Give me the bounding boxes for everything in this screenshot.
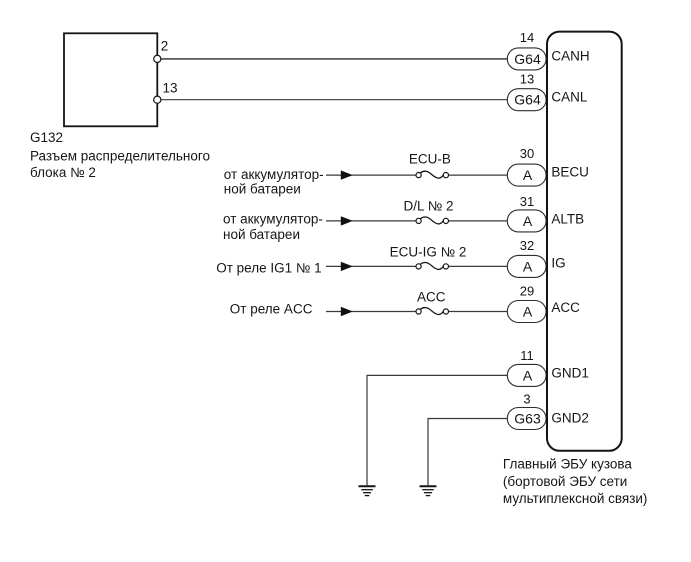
terminal A pin 32 <box>507 255 546 277</box>
fuse D/L № 2 <box>404 199 454 224</box>
svg-text:блока № 2: блока № 2 <box>30 165 96 180</box>
svg-text:ECU-B: ECU-B <box>409 152 451 167</box>
svg-text:13: 13 <box>520 72 534 87</box>
svg-text:G132: G132 <box>30 130 63 145</box>
wire CANH (pin 2 to G64 pin 14) <box>157 58 508 60</box>
terminal A pin 31 <box>507 210 546 232</box>
terminal G64 pin 14 <box>507 48 546 70</box>
svg-text:(бортовой ЭБУ сети: (бортовой ЭБУ сети <box>503 474 627 489</box>
svg-text:GND2: GND2 <box>551 410 589 425</box>
pin 13 terminal circle <box>154 96 161 103</box>
svg-text:ALTB: ALTB <box>551 212 584 227</box>
svg-text:ECU-IG № 2: ECU-IG № 2 <box>390 245 467 260</box>
wire CANL (pin 13 to G64 pin 13) <box>157 99 508 101</box>
terminal G64 pin 13 <box>507 89 546 111</box>
svg-text:CANL: CANL <box>551 90 588 105</box>
connector block G132 <box>64 33 157 126</box>
svg-text:32: 32 <box>520 238 534 253</box>
svg-text:от аккумулятор-: от аккумулятор- <box>223 211 323 226</box>
svg-text:ной батареи: ной батареи <box>223 227 300 242</box>
fuse ECU-IG № 2 <box>390 245 467 270</box>
arrow row BECU <box>341 170 353 179</box>
svg-text:IG: IG <box>551 255 565 270</box>
svg-text:A: A <box>523 213 533 229</box>
pin 2 terminal circle <box>154 55 161 62</box>
terminal A pin 29 <box>507 301 546 323</box>
svg-text:29: 29 <box>520 283 534 298</box>
svg-text:ACC: ACC <box>417 289 446 304</box>
svg-text:G64: G64 <box>514 51 541 67</box>
svg-text:Главный ЭБУ кузова: Главный ЭБУ кузова <box>503 457 633 472</box>
svg-text:A: A <box>523 258 533 274</box>
arrow row IG <box>341 262 353 271</box>
svg-text:14: 14 <box>520 30 534 45</box>
svg-text:BECU: BECU <box>551 165 589 180</box>
wire GND1 to ground <box>367 375 508 485</box>
svg-text:A: A <box>523 367 533 383</box>
svg-text:От реле IG1 № 1: От реле IG1 № 1 <box>216 261 321 276</box>
svg-text:D/L № 2: D/L № 2 <box>404 199 454 214</box>
wire row ACC <box>326 311 508 313</box>
svg-text:13: 13 <box>163 80 178 95</box>
svg-text:30: 30 <box>520 146 534 161</box>
ground symbol (GND2) <box>420 486 437 495</box>
svg-text:От реле ACC: От реле ACC <box>230 301 313 316</box>
ground symbol (GND1) <box>359 486 376 495</box>
svg-text:A: A <box>523 167 533 183</box>
fuse ACC <box>416 289 449 314</box>
caption: Главный ЭБУ кузова <box>503 457 648 506</box>
svg-text:ной батареи: ной батареи <box>224 182 301 197</box>
ECU block (Главный ЭБУ кузова) <box>547 32 622 451</box>
wire row ALTB <box>326 220 508 222</box>
svg-text:G63: G63 <box>514 411 541 427</box>
terminal G63 pin 3 <box>507 408 546 430</box>
svg-text:A: A <box>523 304 533 320</box>
svg-text:от аккумулятор-: от аккумулятор- <box>224 167 324 182</box>
svg-text:GND1: GND1 <box>551 365 589 380</box>
svg-text:31: 31 <box>520 194 534 209</box>
svg-text:Разъем распределительного: Разъем распределительного <box>30 149 210 164</box>
svg-text:ACC: ACC <box>551 300 580 315</box>
svg-text:3: 3 <box>523 391 530 406</box>
node: от аккумуляторной батареи (row BECU) <box>224 167 324 197</box>
arrow row ALTB <box>341 216 353 225</box>
wire GND2 to ground <box>428 419 508 486</box>
terminal A pin 30 <box>507 164 546 186</box>
svg-text:2: 2 <box>161 39 169 54</box>
wire row BECU <box>326 174 508 176</box>
svg-text:11: 11 <box>520 348 534 363</box>
wire row IG <box>326 265 508 267</box>
arrow row ACC <box>341 307 353 316</box>
svg-text:CANH: CANH <box>551 49 589 64</box>
node: от аккумуляторной батареи (row ALTB) <box>223 211 323 242</box>
fuse ECU-B <box>409 152 451 179</box>
terminal A pin 11 <box>507 364 546 386</box>
svg-text:G64: G64 <box>514 92 541 108</box>
svg-text:мультиплексной связи): мультиплексной связи) <box>503 491 648 506</box>
